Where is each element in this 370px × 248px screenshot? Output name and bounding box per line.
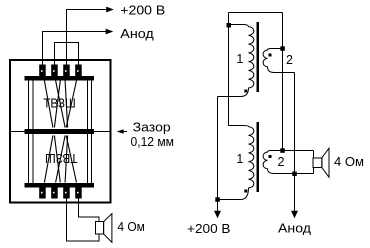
bobbin bottom flange (25, 183, 95, 188)
bottom terminal 2 (51, 188, 58, 199)
arrowhead right (Anode) (106, 29, 114, 35)
bobbin wall left inner (32, 81, 34, 184)
svg-text:4 Ом: 4 Ом (117, 220, 144, 234)
bottom terminal 3 (63, 188, 69, 199)
core outer rectangle (10, 60, 111, 203)
junction node anode rail at bottom secondary lead (292, 172, 297, 177)
transformer T2 secondary winding 2 (bottom) (263, 151, 313, 174)
right vertical wire (secondary tops rail) (282, 13, 284, 151)
top terminal 2 (51, 65, 58, 77)
speaker (left) driver box (96, 222, 104, 235)
bobbin wall left outer (28, 81, 30, 184)
winding lead line top half 1 (44, 81, 53, 128)
wire Anode horizontal with corner down to terminal 1 (43, 32, 107, 65)
winding lead line top half 3 (56, 81, 66, 128)
wire bottom terminal 4 to speaker top (79, 199, 100, 222)
wire bottom terminal 3 to speaker bottom (67, 199, 100, 241)
svg-text:+200 В: +200 В (120, 3, 165, 17)
core gap line (Zazor) (11, 131, 110, 133)
anode rail vertical wire (294, 73, 296, 213)
svg-text:2: 2 (278, 155, 285, 169)
jumper wire T2-T4 bridge (55, 43, 79, 65)
junction node at primary 1 top (227, 23, 232, 28)
winding lead line top half 2 (54, 81, 60, 128)
speaker (left) cone (104, 214, 112, 243)
gap arrow pointing left (118, 131, 127, 133)
svg-text:Зазор: Зазор (133, 120, 171, 134)
junction node secondary rail top at bottom winding (280, 148, 285, 153)
svg-text:Анод: Анод (120, 27, 154, 41)
bobbin middle flange (25, 129, 95, 134)
winding lead line bottom half 3 (56, 136, 66, 183)
top rail horizontal wire (229, 12, 283, 14)
junction node secondary 2 top lead (280, 46, 285, 51)
bottom terminal 1 (39, 188, 46, 199)
core bar T1 (top) (257, 22, 260, 92)
svg-text:1: 1 (236, 52, 243, 66)
arrowhead down Anode (291, 211, 298, 218)
arrowhead down +200V (214, 211, 221, 218)
arrowhead right (+200 V) (106, 7, 114, 13)
polarity dot winding 2 (top) (269, 54, 272, 57)
transformer T1 secondary winding 2 (top) (263, 49, 294, 73)
wire +200V top horizontal with corner down to terminal 3 (67, 10, 107, 65)
svg-text:0,12 мм: 0,12 мм (131, 135, 175, 149)
top terminal 3 (63, 65, 69, 77)
top terminal 1 (39, 65, 46, 77)
svg-text:ТВЗШ: ТВЗШ (45, 151, 78, 165)
winding lead line bottom half 5 (66, 136, 76, 183)
winding lead line bottom half 4 (65, 136, 68, 183)
speaker (right) cone (322, 148, 329, 177)
svg-text:ТВЗШ: ТВЗШ (43, 96, 76, 110)
bobbin wall right outer (91, 81, 93, 184)
svg-text:1: 1 (236, 152, 243, 166)
polarity dot winding 1 (bottom) (244, 190, 247, 193)
transformer T2 primary winding 1 (bottom) (218, 126, 254, 200)
transformer T1 primary winding 1 (top) (218, 25, 254, 97)
svg-text:2: 2 (286, 53, 293, 67)
svg-text:4 Ом: 4 Ом (334, 155, 364, 169)
bottom terminal 4 (75, 188, 82, 199)
polarity dot winding 2 (bottom) (269, 155, 272, 158)
core bar T2 (bottom) (257, 122, 260, 192)
bobbin top flange (25, 76, 95, 81)
speaker (right) connection steps (313, 151, 315, 174)
left vertical wire (primary tops rail) (228, 13, 230, 126)
polarity dot winding 1 (top) (244, 90, 247, 93)
winding lead line bottom half 2 (54, 136, 60, 183)
+200V rail vertical wire (217, 97, 219, 213)
top terminal 4 (75, 65, 82, 77)
winding lead line top half 5 (66, 81, 76, 128)
winding lead line top half 4 (65, 81, 68, 128)
svg-text:Анод: Анод (278, 221, 312, 235)
svg-text:+200 В: +200 В (187, 222, 231, 236)
bobbin wall right inner (86, 81, 88, 184)
speaker (right) driver box (313, 158, 322, 168)
winding lead line bottom half 1 (44, 136, 53, 183)
junction node +200V at bottom primary lead (215, 197, 220, 202)
